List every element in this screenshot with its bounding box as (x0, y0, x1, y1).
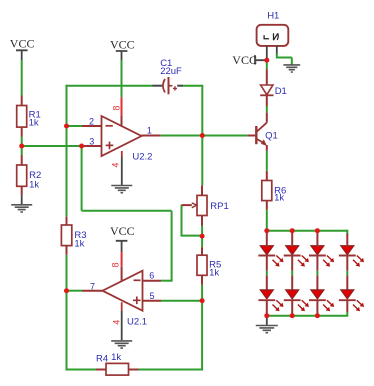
svg-text:2: 2 (89, 116, 94, 126)
svg-text:1k: 1k (111, 352, 121, 363)
svg-text:VCC: VCC (232, 53, 257, 67)
svg-text:8: 8 (112, 106, 122, 111)
svg-text:6: 6 (149, 270, 154, 280)
svg-text:D1: D1 (275, 86, 287, 97)
svg-text:1k: 1k (29, 180, 39, 191)
svg-text:Q1: Q1 (265, 131, 278, 142)
svg-text:1k: 1k (29, 118, 39, 129)
svg-text:7: 7 (90, 281, 95, 291)
svg-text:U2.1: U2.1 (127, 316, 147, 327)
svg-text:1: 1 (147, 126, 152, 136)
svg-text:1k: 1k (209, 267, 219, 278)
svg-text:U2.2: U2.2 (132, 151, 152, 162)
svg-text:1k: 1k (274, 193, 284, 204)
svg-text:8: 8 (110, 262, 120, 267)
svg-text:5: 5 (150, 291, 155, 301)
svg-text:RP1: RP1 (210, 201, 228, 212)
svg-text:H1: H1 (267, 11, 279, 22)
svg-text:3: 3 (89, 136, 94, 146)
svg-text:R4: R4 (96, 354, 108, 365)
svg-text:22uF: 22uF (160, 66, 182, 77)
svg-text:4: 4 (111, 320, 121, 325)
svg-text:4: 4 (111, 163, 121, 168)
svg-text:VCC: VCC (110, 224, 135, 238)
svg-text:1k: 1k (74, 238, 84, 249)
svg-text:VCC: VCC (110, 38, 135, 52)
svg-text:VCC: VCC (10, 37, 35, 51)
